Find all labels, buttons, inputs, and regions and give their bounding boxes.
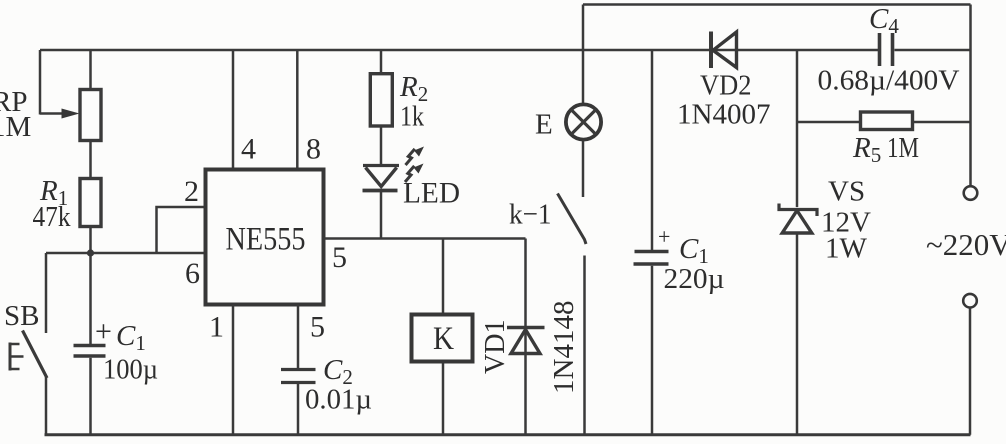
svg-text:8: 8 [306, 133, 321, 166]
svg-text:VD1: VD1 [480, 320, 511, 374]
svg-text:1: 1 [209, 311, 224, 344]
resistor R1 [80, 179, 101, 227]
wire R2 to LED [380, 126, 383, 165]
wire pin5 stub to VD1 [324, 237, 526, 240]
capacitor C1 100u [74, 346, 106, 435]
svg-text:220µ: 220µ [664, 263, 725, 295]
svg-text:K: K [433, 321, 454, 357]
capacitor C2 [281, 370, 316, 435]
wire left branch from rail [39, 50, 42, 115]
svg-text:5: 5 [310, 311, 325, 344]
LED emission arrow 1 [406, 147, 425, 166]
node junction dot [87, 249, 94, 256]
wire top rail lamp to right edge [583, 3, 971, 6]
svg-text:~220V: ~220V [926, 227, 1006, 262]
resistor R5 [861, 112, 913, 130]
svg-text:1N4007: 1N4007 [677, 99, 770, 131]
diode VD1 1N4148 [507, 239, 545, 435]
wire pin5 bottom to C2 [297, 305, 300, 369]
svg-text:1k: 1k [400, 101, 424, 133]
svg-text:5: 5 [332, 241, 347, 274]
lamp E [566, 5, 601, 198]
resistor R2 [370, 74, 392, 126]
svg-text:R5: R5 [852, 132, 881, 167]
wire R5 to right vertical [913, 121, 971, 124]
svg-text:VD2: VD2 [700, 71, 752, 102]
relay K [412, 239, 473, 435]
upper mains terminal [964, 186, 978, 200]
LED emission arrow 2 [405, 164, 424, 183]
potentiometer RP [40, 50, 101, 141]
lower mains terminal [963, 294, 977, 308]
wire pin4 [232, 50, 235, 168]
wire bottom rail [45, 433, 971, 436]
svg-text:C4: C4 [869, 3, 899, 38]
capacitor C1 220u [634, 50, 669, 435]
svg-text:+: + [95, 315, 112, 348]
wire zener branch vertical [796, 50, 799, 207]
svg-text:SB: SB [4, 300, 39, 332]
svg-text:NE555: NE555 [226, 222, 306, 258]
wire lower terminal to bottom rail [969, 308, 972, 435]
wire node down to C1 [89, 253, 92, 344]
wire node to NE555 pin6 [46, 252, 205, 255]
LED D1 [363, 166, 400, 239]
wire R1 to node [89, 227, 92, 254]
wire top-left supply rail segment [40, 49, 879, 52]
wire RP to R1 [89, 141, 92, 179]
svg-text:4: 4 [241, 133, 256, 166]
wire pin8 [296, 50, 299, 168]
wire R2 top [380, 50, 383, 73]
svg-text:C1: C1 [116, 320, 146, 355]
svg-text:100µ: 100µ [103, 354, 158, 386]
svg-text:0.68µ/400V: 0.68µ/400V [818, 65, 960, 97]
svg-text:47k: 47k [33, 201, 71, 233]
zener diode VS [779, 204, 817, 435]
wire R5 branch left [797, 121, 860, 124]
svg-text:k−1: k−1 [509, 199, 552, 231]
svg-text:0.01µ: 0.01µ [305, 384, 372, 416]
svg-text:6: 6 [185, 257, 200, 290]
IC U1 NE555 box [206, 170, 324, 305]
pushbutton SB [10, 253, 47, 435]
svg-text:+: + [658, 224, 670, 249]
svg-text:1W: 1W [825, 233, 868, 265]
wire right vertical to upper terminal [969, 5, 972, 187]
svg-text:2: 2 [184, 175, 199, 208]
switch k-1 [558, 194, 587, 435]
svg-text:1N4148: 1N4148 [548, 301, 580, 394]
wire rail segment C4 to right edge [895, 49, 971, 52]
svg-text:LED: LED [403, 177, 460, 210]
svg-text:VS: VS [828, 176, 865, 208]
svg-text:1M: 1M [0, 111, 31, 143]
wire pin2 loop [157, 207, 206, 253]
svg-text:1M: 1M [887, 132, 919, 164]
svg-text:E: E [535, 109, 553, 141]
wire pin1 to bottom rail [232, 305, 235, 435]
diode VD2 1N4007 [711, 32, 737, 69]
capacitor C4 [880, 33, 893, 66]
